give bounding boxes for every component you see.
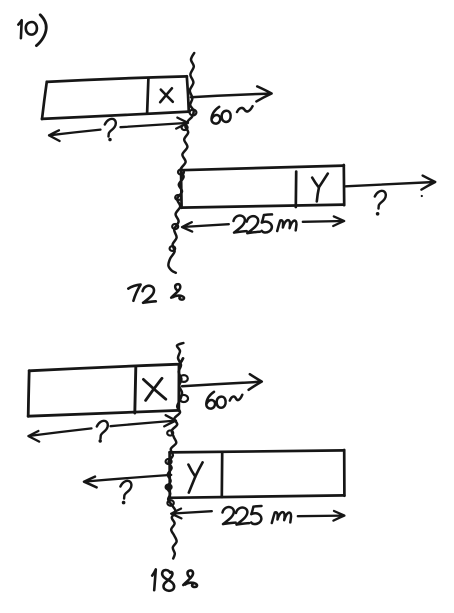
unknown length arrow right head (top) [176,118,188,129]
curl on top wavy line 1 [190,110,197,116]
train Y (bottom) box right edge [343,450,346,496]
train X (top) box divider [147,78,148,113]
curl on top wavy line 3 [178,169,184,174]
225m arrow right head (bottom) [333,511,344,521]
question mark left of train Y (bottom) [120,481,131,499]
curl on top wavy line 6 [170,246,176,251]
curl on top wavy line 2 [182,125,188,130]
label 18s digit 8 [162,570,174,591]
label 60~ (bottom) digit 0 [217,397,226,408]
curl on bottom wavy line 6 [167,500,173,505]
curl on bottom wavy line 4 [166,459,172,464]
train X (bottom) box divider [135,367,136,413]
train Y (top) box left edge [180,170,183,208]
label 225m (bottom) digit 2a [223,507,236,524]
question mark under train X (top) [105,119,116,137]
label 225m (top) digit 2b [247,216,260,233]
problem number 10) - digit 0 [26,22,37,35]
train X (bottom) box left edge [28,371,29,417]
label 72s letter s [171,284,184,299]
225m arrow line left (bottom) [171,511,211,513]
unknown length arrow line left (top) [49,130,100,136]
label 18s letter s [183,571,197,587]
225m arrow line right (bottom) [298,514,344,517]
train X (bottom) box top edge [29,358,183,370]
question mark dot right of train Y (top) [376,212,380,216]
225m arrow line left (top) [182,224,229,227]
train Y (top) box right edge [342,165,345,205]
label 18s digit 1 [152,569,156,590]
label 60~ (top) digit 0 [222,111,231,122]
wavy reference line (top diagram) [168,53,194,273]
speed arrow head (top) [256,86,271,101]
wavy reference line (bottom diagram) [167,343,183,559]
label 72s digit 2 [143,286,156,303]
unknown length arrow line right (bottom) [111,421,176,427]
unknown length arrow left head (top) [49,130,60,141]
speed arrow of train Y (top) [346,182,435,186]
train Y (bottom) box top edge [170,450,345,452]
stray ink speck near arrow head (top) [421,195,423,197]
question mark under train X (bottom) [97,421,108,439]
225m arrow right head (top) [333,216,344,226]
curl on top wavy line 4 [175,195,181,200]
train Y (bottom) box bottom edge [170,495,345,497]
train Y (bottom) box divider [220,453,223,498]
label 60~ (top) tilde [237,106,253,112]
label 225m (bottom) digit 2b [236,508,249,525]
speed arrow of train Y (bottom, leftward) [84,475,171,482]
speed arrow head (bottom) [249,374,262,390]
question mark dot left of train Y (bottom) [122,501,126,505]
225m arrow left head (top) [182,222,192,231]
train X (bottom) box bottom edge [28,410,179,416]
unknown length arrow left head (bottom) [28,431,39,442]
train Y (top) box bottom edge [182,205,345,208]
label 60~ (bottom) digit 6 [206,392,215,409]
question mark dot under train X (bottom) [99,439,102,442]
train Y (top) box top edge [181,166,344,171]
train Y (bottom) box left edge [168,452,171,498]
225m arrow line right (top) [303,220,344,223]
train X (top) box left edge [42,82,47,119]
curl on bottom wavy line 1 [180,375,188,382]
label 60~ (bottom) tilde [230,395,242,401]
label 225m (bottom) digit 5 [251,506,261,524]
label 60~ (top) digit 6 [211,107,220,124]
letter x in top train X box [160,88,173,102]
curl on top wavy line 5 [172,224,178,229]
label 225m (top) digit 5 [262,214,272,232]
curl on bottom wavy line 2 [180,395,188,402]
question mark right of train Y (top) [375,191,386,209]
label 225m (bottom) letter m [272,512,291,523]
speed arrow head of train Y (top) [421,176,435,190]
train X (top) box right edge [187,76,189,112]
unknown length arrow line left (bottom) [29,428,92,436]
unknown length arrow line right (top) [121,123,188,127]
train Y (top) box divider [294,172,297,207]
train X (top) box top edge [47,76,187,82]
label 225m (top) letter m [277,220,296,231]
train X (bottom) box right edge [177,364,180,410]
225m arrow left head (bottom) [171,509,181,519]
question mark dot under train X (top) [108,138,111,141]
curl on bottom wavy line 5 [166,484,172,489]
letter Y in top train Y box [312,174,328,202]
train X (top) box bottom edge [42,112,189,119]
letter y in bottom train Y box [188,462,202,492]
unknown length arrow right head (bottom) [164,415,176,426]
speed arrow of train X (top) [191,94,271,98]
letter X in bottom train X box [143,378,165,400]
speed arrow head of train Y (bottom) [84,477,97,488]
label 225m (top) digit 2a [234,216,247,233]
problem number 10) - digit 1 [18,20,21,38]
problem number 10) - closing paren [36,15,46,46]
label 72s digit 7 [128,285,140,301]
speed arrow of train X (bottom) [182,382,261,386]
curl on bottom wavy line 3 [167,430,173,435]
